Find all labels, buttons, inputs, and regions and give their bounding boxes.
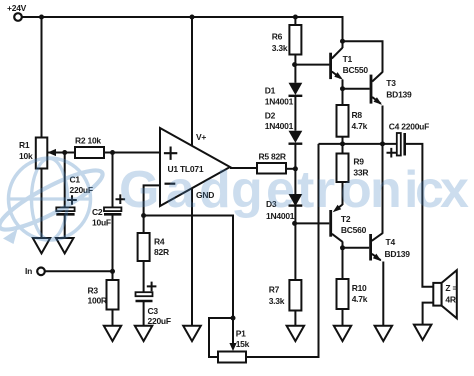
wire GND pin to ground (191, 189, 193, 326)
wire R4 bottom to C3 (143, 261, 145, 292)
diode D1 (289, 83, 303, 96)
ground below R10 (334, 326, 351, 341)
transistor T4 BD139 (369, 233, 382, 261)
svg-text:R5 82R: R5 82R (259, 152, 286, 162)
svg-text:4.7k: 4.7k (352, 294, 368, 304)
wire R9 bottom to T2 emitter (342, 182, 344, 205)
wire T4 emitter to ground (382, 262, 384, 326)
svg-text:R1: R1 (19, 140, 30, 150)
wire R8 bottom to output node to R9 (342, 137, 344, 154)
svg-text:220uF: 220uF (148, 316, 171, 326)
wire P1 right terminal to output node (246, 144, 319, 357)
svg-text:Z =: Z = (445, 283, 457, 293)
svg-text:100R: 100R (88, 296, 107, 306)
svg-text:BC560: BC560 (341, 225, 367, 235)
capacitor C3 (136, 282, 157, 301)
P1 wiper arrowhead (229, 343, 236, 351)
wire P1 left terminal loop (209, 318, 233, 357)
wire T1 base (295, 64, 330, 66)
svg-text:C3: C3 (148, 306, 159, 316)
svg-text:T1: T1 (343, 54, 353, 64)
wire R2 to op-amp plus input (104, 152, 160, 154)
wire R1 wiper to node (48, 152, 65, 154)
wire T1 emitter down to R8 (342, 80, 344, 106)
svg-text:R10: R10 (352, 283, 367, 293)
ground below R1 (33, 238, 50, 253)
svg-text:BD139: BD139 (385, 249, 411, 259)
transistor T2 BC560 (329, 205, 342, 242)
resistor R8 (337, 105, 349, 137)
wire C3 bottom to ground (143, 302, 145, 326)
diode D3 (289, 194, 303, 206)
ground below R7 (287, 326, 305, 341)
wire R1 branch from rail (41, 17, 43, 138)
svg-text:T4: T4 (386, 237, 396, 247)
svg-text:3.3k: 3.3k (272, 43, 288, 53)
svg-text:1N4001: 1N4001 (265, 121, 294, 131)
watermark globe logo (0, 158, 108, 244)
svg-text:V+: V+ (196, 132, 206, 142)
ground below R3 (104, 326, 121, 341)
capacitor C2 (104, 194, 125, 214)
wire R4 top (143, 216, 145, 234)
svg-text:C2: C2 (92, 207, 103, 217)
resistor R2 (75, 147, 104, 158)
resistor R4 (138, 233, 150, 261)
svg-text:D2: D2 (265, 110, 276, 120)
ground below op-amp GND pin (183, 326, 201, 341)
svg-text:15k: 15k (236, 339, 250, 349)
wire In terminal to node (45, 270, 113, 272)
capacitor C1 (56, 195, 77, 214)
resistor R6 (289, 25, 301, 55)
wire T1 emitter node to T3 base (343, 88, 370, 90)
resistor R7 (289, 280, 301, 311)
svg-text:P1: P1 (236, 329, 246, 339)
wire V+ pin (191, 17, 193, 146)
svg-text:R4: R4 (154, 236, 165, 246)
wire speaker bottom terminal to ground (423, 303, 434, 325)
wire T2 base (295, 222, 330, 224)
wire +24V top rail (22, 17, 343, 48)
wire D3 to T2 base node to R7 (294, 206, 296, 280)
R1 wiper arrowhead (48, 149, 57, 156)
svg-text:C4 2200uF: C4 2200uF (389, 122, 429, 132)
wire T1 collector to T3 collector rail (343, 41, 383, 72)
wire R10 bottom to ground (342, 309, 344, 326)
wire R7 bottom to ground (294, 311, 296, 326)
wire R6 top stem (294, 17, 296, 25)
op-amp plus input symbol (164, 147, 177, 160)
wire T2 collector down to R10 (342, 242, 344, 280)
wire R3 bottom to ground (112, 310, 114, 326)
wire R6 bottom to T1 base node (294, 55, 296, 83)
wire node B to C2 (112, 153, 114, 208)
svg-text:T3: T3 (386, 78, 396, 88)
terminal +24V (14, 13, 22, 21)
wire C1 bottom to ground (64, 215, 66, 238)
speaker Z=4R (433, 270, 457, 318)
svg-text:BC550: BC550 (343, 65, 369, 75)
ground below C3 (135, 326, 153, 341)
op-amp minus input symbol (165, 183, 176, 185)
resistor R9 (337, 154, 349, 183)
wire minus input to feedback node (144, 185, 160, 215)
op-amp U1 TL071 triangle (160, 128, 230, 206)
wire T2 collector node to T4 base (343, 247, 370, 249)
svg-text:R7: R7 (269, 284, 280, 294)
resistor R1 (potentiometer body) (36, 138, 48, 169)
svg-text:4.7k: 4.7k (352, 121, 368, 131)
resistor R10 (337, 279, 349, 309)
svg-text:BD139: BD139 (386, 90, 412, 100)
svg-text:R3: R3 (88, 285, 99, 295)
wire op-amp output to R5 (230, 167, 257, 169)
potentiometer P1 body (218, 352, 246, 363)
wire R1 bottom to ground (41, 169, 43, 239)
wire D1 to D2 (294, 96, 296, 131)
resistor R5 (257, 163, 286, 174)
svg-text:D1: D1 (265, 86, 276, 96)
svg-text:R6: R6 (272, 32, 283, 42)
ground below C1 (56, 238, 74, 253)
capacitor C4 (387, 133, 405, 158)
svg-text:4R: 4R (445, 295, 455, 305)
svg-text:+24V: +24V (7, 3, 27, 13)
wire wiper node to C1 (64, 153, 66, 208)
ground below T4 emitter (375, 326, 393, 341)
wire C4 right to speaker top terminal (406, 144, 434, 287)
svg-text:3.3k: 3.3k (269, 296, 285, 306)
WATERMARK (0, 158, 108, 244)
svg-text:10uF: 10uF (92, 218, 111, 228)
wire T3 emitter down through output node to T4 collector (382, 106, 384, 234)
transistor Q T1 BC550 (329, 48, 343, 80)
svg-text:10k: 10k (19, 151, 33, 161)
wire wiper node to R2 (65, 152, 75, 154)
svg-text:82R: 82R (154, 247, 169, 257)
wire feedback node to P1 wiper (144, 216, 233, 345)
resistor R3 (107, 280, 119, 310)
svg-text:1N4001: 1N4001 (265, 97, 294, 107)
terminal In (37, 268, 45, 276)
ground below speaker (414, 325, 432, 340)
svg-text:Gadgetronicx: Gadgetronicx (119, 161, 469, 219)
svg-text:R8: R8 (352, 110, 363, 120)
svg-text:In: In (25, 266, 32, 276)
wire output node horizontal to C4 (319, 143, 397, 145)
wire D2 to R5 node to D3 (294, 144, 296, 194)
svg-text:R2 10k: R2 10k (75, 136, 101, 146)
transistor T3 BD139 (370, 72, 383, 105)
wire R5 to diode node (286, 168, 295, 170)
wire C2 bottom to In node (112, 215, 114, 280)
diode D2 (289, 131, 303, 144)
